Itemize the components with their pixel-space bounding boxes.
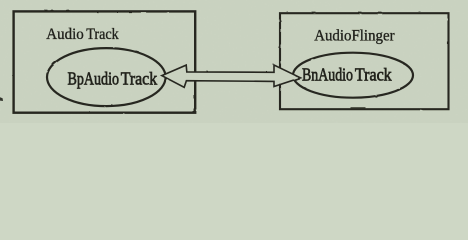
scan artifact: dash above right box bottom (351, 107, 366, 108)
label AudioFlinger (314, 28, 395, 45)
ellipse BnAudioTrack (293, 53, 413, 98)
label BpAudioTrack (68, 69, 158, 89)
box AudioFlinger (280, 13, 449, 109)
box AudioTrack (14, 11, 196, 112)
label BnAudioTrack (302, 65, 392, 85)
label AudioTrack (46, 26, 119, 43)
paper noise overlay (0, 0, 468, 123)
ellipse BpAudioTrack (47, 48, 166, 106)
scan artifact: tick at left margin (0, 97, 3, 101)
double arrow binder IPC link (162, 65, 301, 87)
